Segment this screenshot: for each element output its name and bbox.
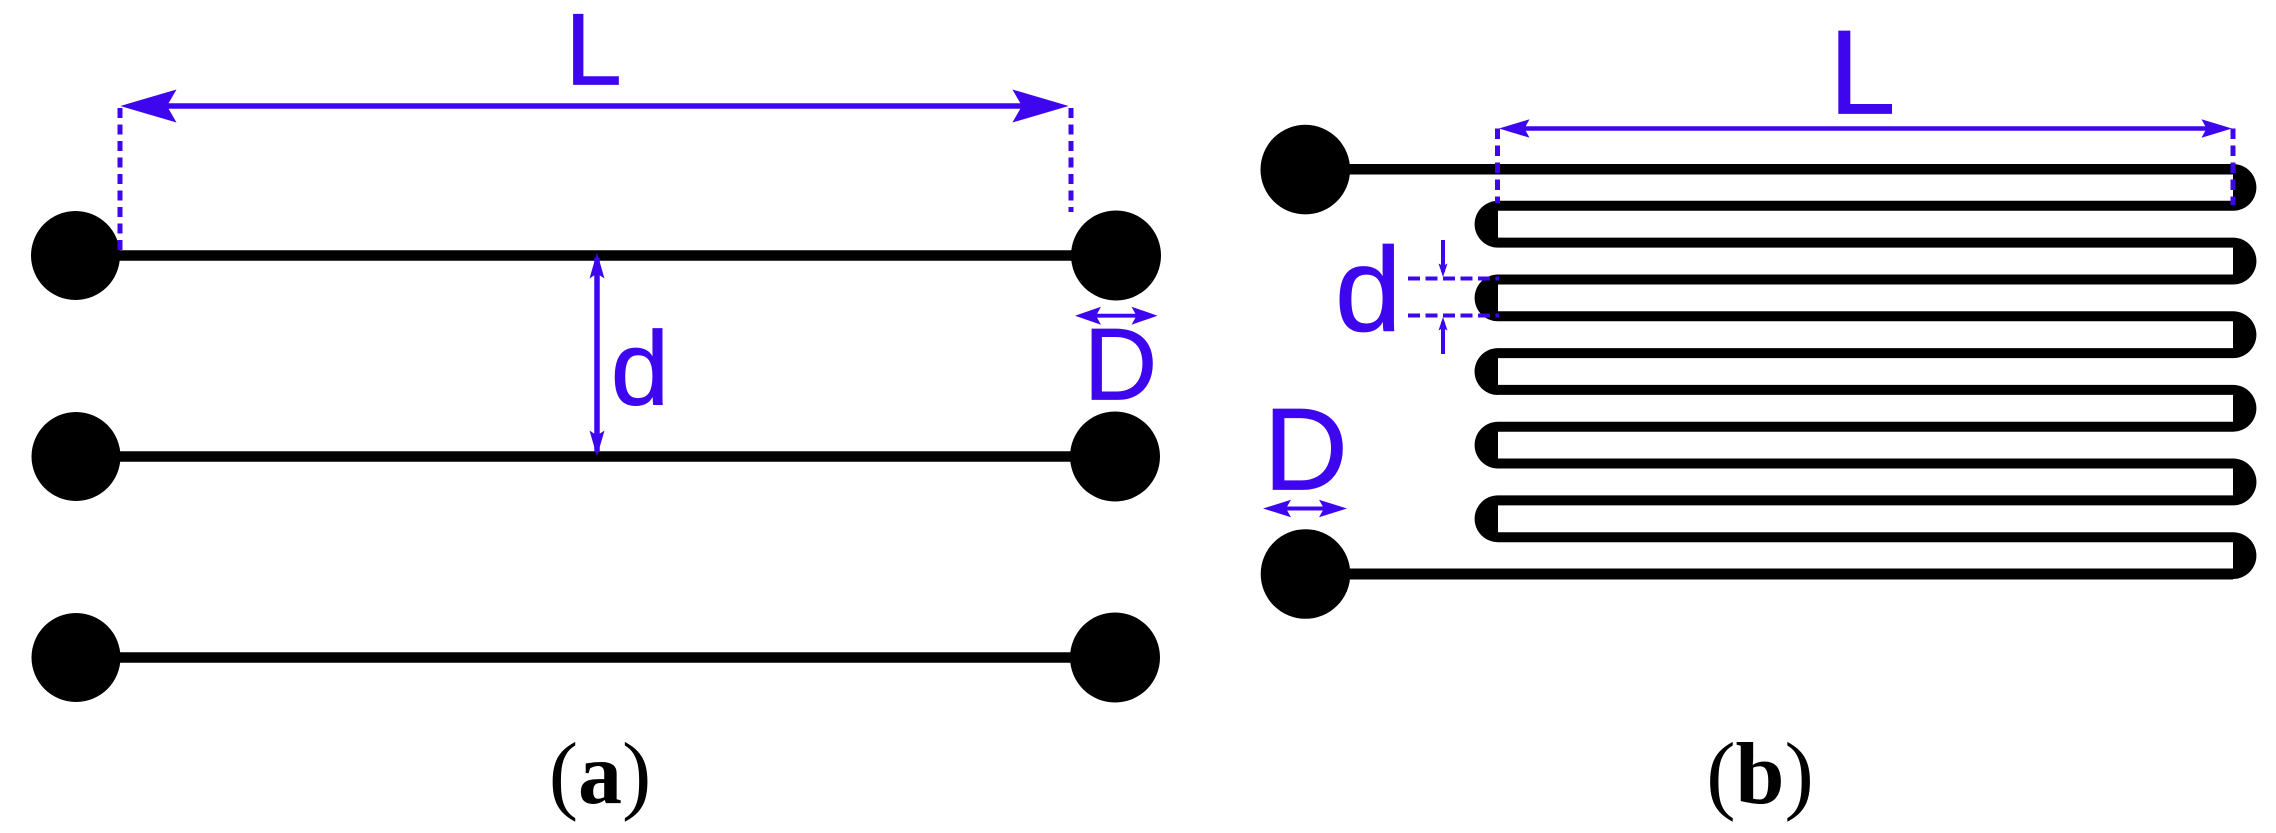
svg-text:(b): (b)	[1706, 726, 1814, 823]
svg-text:L: L	[565, 0, 622, 107]
svg-text:D: D	[1084, 307, 1158, 421]
svg-text:L: L	[1829, 6, 1896, 140]
svg-text:d: d	[1335, 223, 1402, 357]
svg-text:d: d	[611, 310, 669, 427]
svg-text:(a): (a)	[549, 726, 652, 823]
svg-text:D: D	[1264, 383, 1349, 514]
